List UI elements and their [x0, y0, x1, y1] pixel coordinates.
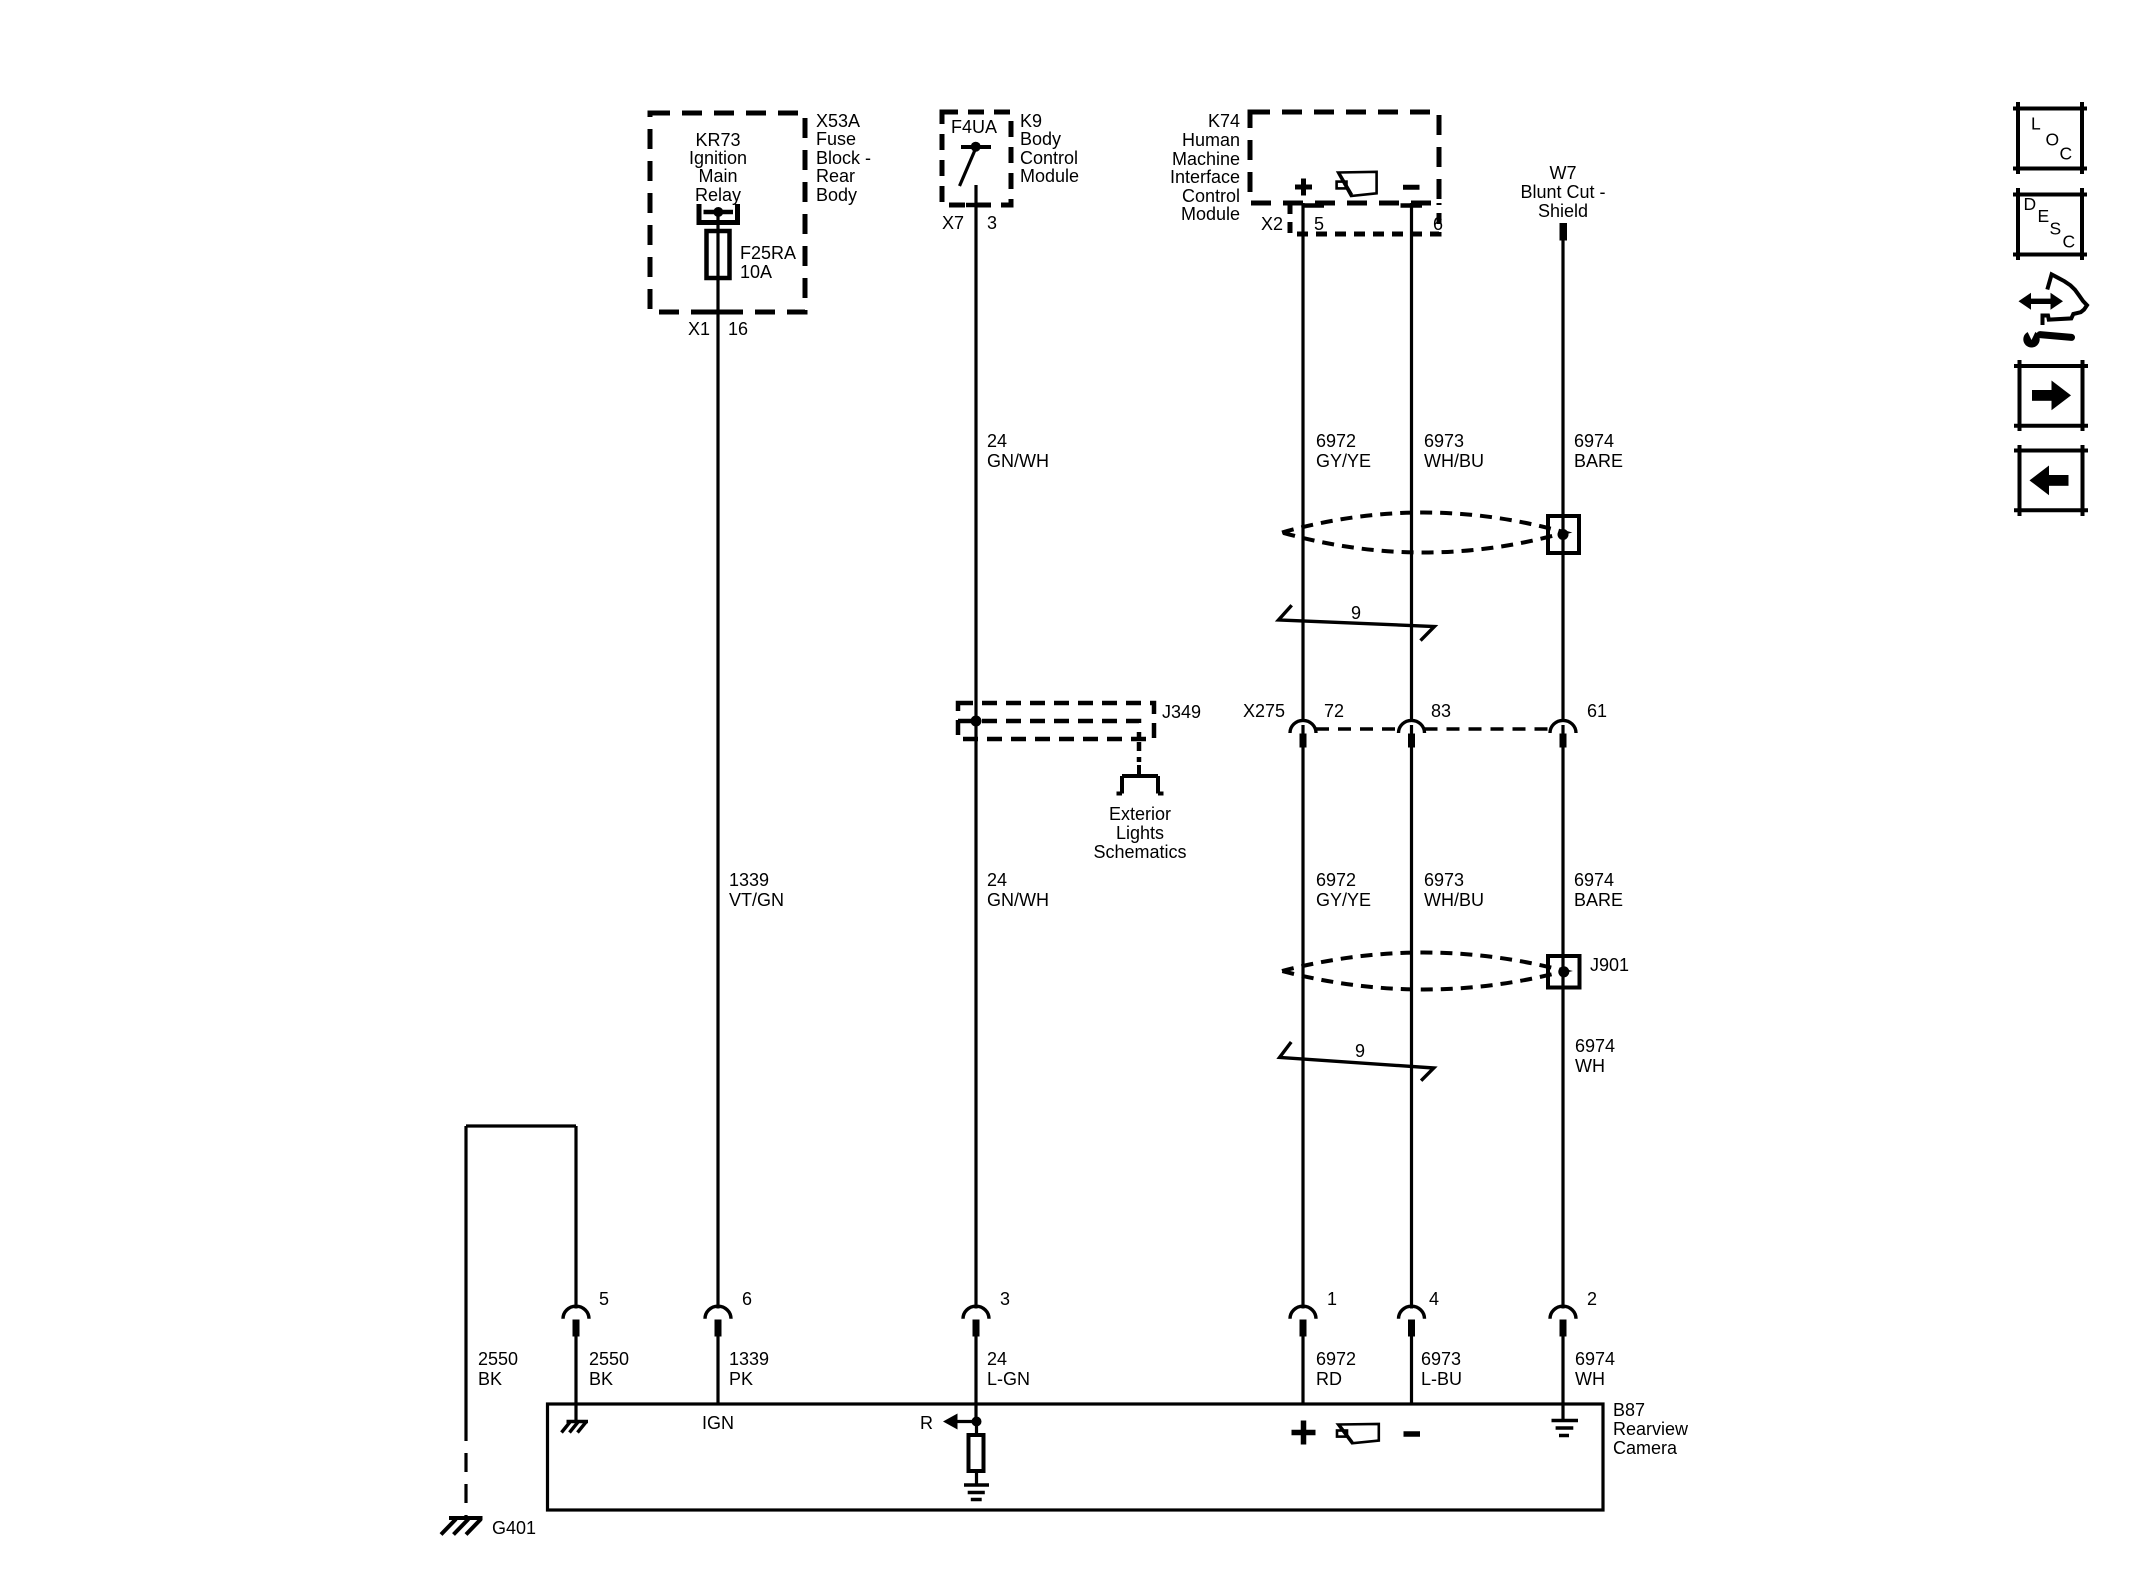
camera pin 4 connector arc [1399, 1306, 1425, 1319]
svg-text:6973: 6973 [1421, 1349, 1461, 1369]
HMI K74 connector X2 dashed box [1290, 203, 1439, 234]
camera icon (B87) [1337, 1424, 1379, 1443]
svg-text:Block -: Block - [816, 148, 871, 168]
shield drain dot upper [1558, 529, 1569, 540]
svg-text:16: 16 [728, 319, 748, 339]
camera pin 6 terminal [715, 1320, 722, 1337]
inline connector X275 arc pin 83 [1399, 720, 1425, 733]
shield ellipse upper [1282, 513, 1565, 553]
svg-text:Lights: Lights [1116, 823, 1164, 843]
wire junction to resistor [975, 1422, 978, 1485]
svg-text:6: 6 [742, 1289, 752, 1309]
inline connector X275 arc pin 61 [1550, 720, 1576, 733]
svg-text:Exterior: Exterior [1109, 804, 1171, 824]
ground G401 symbol [441, 1518, 483, 1535]
svg-text:5: 5 [1314, 214, 1324, 234]
DESC nav box [2013, 188, 2087, 260]
svg-text:5: 5 [599, 1289, 609, 1309]
minus terminal (K74) [1403, 185, 1420, 190]
svg-text:6973: 6973 [1424, 870, 1464, 890]
svg-text:6974: 6974 [1574, 431, 1614, 451]
body control module K9 label [1020, 111, 1079, 186]
LOC letters [2031, 114, 2072, 164]
svg-text:R: R [920, 1413, 933, 1433]
svg-text:W7: W7 [1550, 163, 1577, 183]
connector X2 pin 5 tick [1302, 203, 1324, 208]
svg-text:IGN: IGN [702, 1413, 734, 1433]
camera pin 2 terminal [1560, 1320, 1567, 1337]
svg-text:GY/YE: GY/YE [1316, 890, 1371, 910]
svg-text:J901: J901 [1590, 955, 1629, 975]
shield ellipse lower [1282, 953, 1565, 990]
camera pin 5 wire into box [574, 1337, 577, 1422]
svg-text:X53A: X53A [816, 111, 860, 131]
svg-text:3: 3 [1000, 1289, 1010, 1309]
connector X7 pin 3 labels [942, 213, 997, 233]
svg-text:6: 6 [1433, 214, 1443, 234]
wire labels 6972/6973 middle [1316, 870, 1484, 910]
B87 label [1613, 1400, 1689, 1458]
svg-text:WH/BU: WH/BU [1424, 890, 1484, 910]
svg-text:4: 4 [1429, 1289, 1439, 1309]
svg-text:6974: 6974 [1575, 1349, 1615, 1369]
svg-text:BK: BK [478, 1369, 502, 1389]
service icon vehicle outline [2043, 274, 2088, 325]
connector X2 labels [1261, 214, 1443, 234]
wire labels 6972/6973 upper [1316, 431, 1484, 471]
minus terminal (B87) [1404, 1431, 1421, 1437]
svg-text:Module: Module [1181, 204, 1240, 224]
svg-text:2550: 2550 [478, 1349, 518, 1369]
relay KR73 contact [699, 204, 738, 223]
svg-text:KR73: KR73 [695, 130, 740, 150]
svg-text:B87: B87 [1613, 1400, 1645, 1420]
LOC nav box [2013, 102, 2087, 174]
camera pin 4 terminal [1408, 1320, 1415, 1337]
svg-text:9: 9 [1355, 1041, 1365, 1061]
rearview camera B87 box [548, 1404, 1604, 1510]
svg-text:6974: 6974 [1575, 1036, 1615, 1056]
svg-text:L-BU: L-BU [1421, 1369, 1462, 1389]
dashed drop from J349 [1137, 742, 1142, 762]
service icon wrench [2023, 327, 2071, 348]
svg-text:6974: 6974 [1574, 870, 1614, 890]
svg-text:83: 83 [1431, 701, 1451, 721]
inline connector X275 pin 61 terminal [1560, 734, 1567, 748]
svg-text:L-GN: L-GN [987, 1369, 1030, 1389]
connector X1 tick [708, 310, 729, 315]
svg-text:BARE: BARE [1574, 890, 1623, 910]
svg-text:6973: 6973 [1424, 431, 1464, 451]
twisted count slash upper [1279, 605, 1435, 640]
shield drain box J901 [1548, 956, 1580, 988]
service icon double arrow [2019, 293, 2064, 310]
switch F4UA [960, 142, 992, 186]
svg-text:Rearview: Rearview [1613, 1419, 1689, 1439]
svg-text:Rear: Rear [816, 166, 855, 186]
svg-text:C: C [2063, 232, 2076, 252]
twisted count slash lower [1280, 1042, 1434, 1081]
svg-text:G401: G401 [492, 1518, 536, 1538]
wire 6972 GY/YE from K74 pin 5 [1301, 203, 1304, 1309]
svg-text:O: O [2046, 130, 2060, 150]
svg-text:D: D [2024, 194, 2037, 214]
svg-text:RD: RD [1316, 1369, 1342, 1389]
wire 1339 VT/GN from relay to camera pin 6 [716, 212, 719, 1309]
camera pin 2 wire into box [1561, 1337, 1564, 1420]
svg-text:GN/WH: GN/WH [987, 451, 1049, 471]
svg-text:Interface: Interface [1170, 167, 1240, 187]
svg-text:24: 24 [987, 870, 1007, 890]
svg-text:Human: Human [1182, 130, 1240, 150]
svg-text:Blunt Cut -: Blunt Cut - [1520, 182, 1605, 202]
ground jumper wire 2550 BK [466, 1126, 576, 1422]
svg-text:Body: Body [816, 185, 857, 205]
camera pin 3 terminal [973, 1320, 980, 1337]
camera pin 5 terminal [573, 1320, 580, 1337]
inline connector X275 dashed link [1316, 727, 1550, 731]
svg-text:J349: J349 [1162, 702, 1201, 722]
svg-text:K74: K74 [1208, 111, 1240, 131]
plus terminal (B87) [1292, 1421, 1316, 1445]
wire labels 6974 middle [1574, 870, 1623, 910]
svg-text:WH: WH [1575, 1369, 1605, 1389]
exterior lights schematics label [1093, 804, 1186, 862]
svg-text:10A: 10A [740, 262, 772, 282]
shield drain box upper [1548, 516, 1579, 553]
svg-text:1339: 1339 [729, 1349, 769, 1369]
inline connector X275 pin 72 terminal [1300, 734, 1307, 748]
wire label 6974 WH after J901 [1575, 1036, 1615, 1076]
svg-text:Fuse: Fuse [816, 129, 856, 149]
next page arrow box [2014, 360, 2088, 431]
junction dot R node [972, 1417, 982, 1427]
svg-text:K9: K9 [1020, 111, 1042, 131]
camera pin 1 terminal [1300, 1320, 1307, 1337]
svg-text:VT/GN: VT/GN [729, 890, 784, 910]
svg-text:Relay: Relay [695, 185, 741, 205]
svg-text:24: 24 [987, 1349, 1007, 1369]
svg-text:Module: Module [1020, 166, 1079, 186]
camera pin number labels [599, 1289, 1597, 1309]
connector X7 tick [966, 203, 986, 208]
svg-text:6972: 6972 [1316, 431, 1356, 451]
svg-text:6972: 6972 [1316, 1349, 1356, 1369]
wire labels 6974 upper [1574, 431, 1623, 471]
svg-text:2550: 2550 [589, 1349, 629, 1369]
svg-text:24: 24 [987, 431, 1007, 451]
connector X1 pin 16 labels [688, 319, 748, 339]
svg-text:X275: X275 [1243, 701, 1285, 721]
previous page arrow box [2014, 445, 2088, 516]
blunt cut W7 label [1520, 163, 1605, 221]
svg-text:Schematics: Schematics [1093, 842, 1186, 862]
svg-text:1339: 1339 [729, 870, 769, 890]
svg-text:Control: Control [1020, 148, 1078, 168]
camera icon (K74) [1337, 172, 1377, 196]
svg-text:X7: X7 [942, 213, 964, 233]
ground wire dashed segment to G401 [464, 1422, 467, 1516]
chassis ground inside camera (pin 5) [562, 1422, 589, 1433]
splice pack J349 dashed box [958, 703, 1154, 739]
svg-text:E: E [2038, 206, 2050, 226]
connector X2 pin 6 tick [1401, 203, 1423, 208]
relay KR73 label [689, 130, 747, 205]
svg-text:WH/BU: WH/BU [1424, 451, 1484, 471]
svg-text:Main: Main [698, 166, 737, 186]
wire label 24 GN/WH lower [987, 870, 1049, 910]
camera pin 1 wire into box [1301, 1337, 1304, 1405]
svg-text:L: L [2031, 114, 2041, 134]
svg-text:X1: X1 [688, 319, 710, 339]
blunt cut W7 terminal [1560, 223, 1568, 241]
fuse block X53A label [816, 111, 871, 205]
resistor (camera video load) [969, 1435, 984, 1471]
svg-text:Ignition: Ignition [689, 148, 747, 168]
svg-text:BK: BK [589, 1369, 613, 1389]
wire label 24 GN/WH upper [987, 431, 1049, 471]
HMI control module K74 dashed box [1250, 112, 1439, 203]
wire labels 2550 BK right [589, 1349, 629, 1389]
earth ground under resistor [964, 1485, 989, 1500]
svg-text:Body: Body [1020, 129, 1061, 149]
svg-text:Control: Control [1182, 186, 1240, 206]
svg-text:3: 3 [987, 213, 997, 233]
camera pin 2 connector arc [1550, 1306, 1576, 1319]
svg-text:C: C [2060, 144, 2073, 164]
svg-text:2: 2 [1587, 1289, 1597, 1309]
camera pin 3 connector arc [963, 1306, 989, 1319]
next page arrow [2032, 381, 2071, 411]
wire labels 2550 BK left [478, 1349, 518, 1389]
svg-text:1: 1 [1327, 1289, 1337, 1309]
svg-text:Machine: Machine [1172, 149, 1240, 169]
wire 24 GN/WH from K9 to camera pin 3 [974, 185, 977, 1309]
svg-text:Camera: Camera [1613, 1438, 1678, 1458]
shield drain dot J901 [1558, 966, 1569, 977]
camera pin 1 connector arc [1290, 1306, 1316, 1319]
fuse F25RA value label [740, 243, 796, 282]
svg-text:GN/WH: GN/WH [987, 890, 1049, 910]
inline connector X275 pin 83 terminal [1408, 734, 1415, 748]
camera pin 6 connector arc [705, 1306, 731, 1319]
svg-text:72: 72 [1324, 701, 1344, 721]
svg-text:S: S [2050, 219, 2062, 239]
wire labels bottom row [729, 1349, 1615, 1389]
svg-text:61: 61 [1587, 701, 1607, 721]
DESC letters [2024, 194, 2076, 252]
HMI module K74 label [1170, 111, 1240, 224]
svg-text:PK: PK [729, 1369, 753, 1389]
svg-text:6972: 6972 [1316, 870, 1356, 890]
wire label 1339 VT/GN [729, 870, 784, 910]
splice junction dot on wire 24 [971, 716, 982, 727]
fuse block X53A dashed box [650, 113, 805, 312]
plus terminal (K74) [1295, 179, 1312, 196]
earth ground inside camera (pin 2) [1552, 1421, 1579, 1436]
inline connector X275 labels [1243, 701, 1607, 721]
wire 6974 shield drain [1561, 240, 1564, 1309]
inline connector X275 arc pin 72 [1290, 720, 1316, 733]
svg-text:F4UA: F4UA [951, 117, 997, 137]
svg-text:X2: X2 [1261, 214, 1283, 234]
camera pin 6 wire into box [716, 1337, 719, 1405]
wire 6973 WH/BU from K74 pin 6 [1410, 203, 1413, 1309]
off-page connector to exterior lights [1117, 765, 1164, 794]
svg-text:WH: WH [1575, 1056, 1605, 1076]
R output arrow [943, 1414, 977, 1430]
svg-text:BARE: BARE [1574, 451, 1623, 471]
body control module K9 dashed box [942, 112, 1011, 205]
fuse F25RA [707, 231, 730, 278]
camera pin 4 wire into box [1410, 1337, 1413, 1405]
previous page arrow [2030, 466, 2069, 496]
svg-text:GY/YE: GY/YE [1316, 451, 1371, 471]
svg-text:F25RA: F25RA [740, 243, 796, 263]
svg-text:Shield: Shield [1538, 201, 1588, 221]
svg-text:9: 9 [1351, 603, 1361, 623]
camera pin 5 connector arc [563, 1306, 589, 1319]
camera pin 3 wire into box [974, 1337, 977, 1422]
splice pack J349 middle dashed rail [958, 721, 1139, 739]
